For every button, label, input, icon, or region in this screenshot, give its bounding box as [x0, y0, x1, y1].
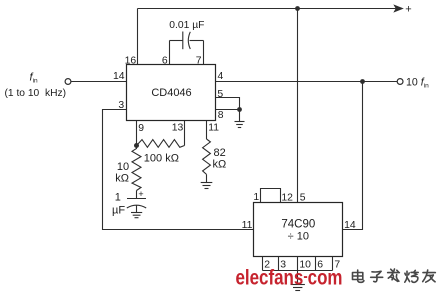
arrowhead on +V rail — [394, 5, 403, 12]
svg-text:13: 13 — [172, 123, 184, 134]
wire: +V supply rail — [138, 8, 396, 10]
svg-text:14: 14 — [344, 220, 356, 231]
watermark: Chinese characters dian zi fa shao you — [353, 269, 436, 282]
glyph shao — [405, 270, 418, 282]
svg-text:9: 9 — [138, 123, 144, 134]
svg-text:82: 82 — [214, 147, 226, 159]
node: junction +V rail / 74C90 Vcc — [295, 6, 300, 11]
svg-text:kΩ: kΩ — [213, 159, 227, 171]
glyph dian — [353, 270, 364, 282]
wire: 74C90 bottom pins 2,3,10,6,7 to ground bus — [263, 257, 333, 285]
wire: junction down and left to 74C90 pin 14 — [343, 82, 363, 230]
svg-text:16: 16 — [125, 56, 137, 67]
svg-text:0.01 µF: 0.01 µF — [169, 20, 204, 31]
glyph you — [423, 270, 436, 282]
svg-text:(1 to 10 kHz): (1 to 10 kHz) — [5, 88, 67, 99]
glyph fa — [388, 269, 400, 281]
svg-text:elecfans-com: elecfans-com — [236, 267, 343, 290]
svg-text:+: + — [405, 4, 411, 16]
node: junction pin5/pin8 to ground — [237, 107, 242, 112]
ground: below R3 — [201, 174, 213, 188]
svg-text:100 kΩ: 100 kΩ — [144, 153, 179, 165]
capacitor C2 1uF: curved bottom plate — [127, 205, 146, 208]
svg-text:kΩ: kΩ — [115, 172, 129, 184]
resistor R3 82 kOhm (vertical) — [203, 139, 211, 174]
wire: CD4046 pin 5 — [216, 98, 240, 110]
svg-text:8: 8 — [218, 110, 224, 121]
capacitor C1 0.01uF between pins 6 and 7 — [170, 32, 204, 65]
svg-text:CD4046: CD4046 — [151, 87, 191, 99]
resistor R2 10 kOhm (vertical) — [132, 146, 141, 191]
svg-text:÷ 10: ÷ 10 — [288, 231, 309, 243]
resistor R1 100 kOhm (horizontal) — [137, 140, 185, 148]
IC U1 CD4046 body — [127, 65, 216, 121]
svg-text:11: 11 — [242, 220, 253, 231]
wire: R1 right end up to CD4046 pin 13 — [184, 121, 186, 146]
wire: CD4046 pin 11 stub — [206, 121, 208, 140]
wire: pin 16 stub to +V rail — [137, 9, 139, 65]
svg-text:74C90: 74C90 — [281, 218, 315, 230]
wire: jumper 74C90 pin 1 to pin 12 — [261, 189, 281, 203]
svg-text:5: 5 — [217, 89, 223, 100]
svg-text:7: 7 — [196, 56, 202, 67]
svg-text:6: 6 — [162, 56, 168, 67]
svg-text:5: 5 — [300, 192, 306, 203]
wire: input terminal to CD4046 pin 14 — [71, 81, 127, 83]
wire: CD4046 pin 9 stub — [136, 121, 138, 146]
svg-text:4: 4 — [218, 71, 224, 82]
svg-text:10 fin: 10 fin — [406, 76, 429, 89]
node: junction pin9 / R1 / R2 — [134, 143, 139, 148]
input terminal circle — [65, 79, 71, 85]
svg-text:1: 1 — [115, 192, 121, 204]
svg-text:µF: µF — [112, 205, 125, 217]
wire: CD4046 pin 4 to 10fin output terminal — [216, 81, 398, 83]
glyph zi — [371, 271, 383, 282]
svg-text:fin: fin — [30, 71, 39, 84]
ground: below C2 — [131, 205, 142, 217]
node: junction VCO out / divider input — [360, 79, 365, 84]
wire: CD4046 pin 8 — [216, 109, 240, 111]
svg-text:+: + — [138, 189, 143, 199]
IC U2 74C90 body — [254, 203, 343, 257]
wire: +V rail down to 74C90 pin 5 — [297, 9, 299, 203]
wire: CD4046 pin 3 to 74C90 pin 11 — [103, 110, 254, 230]
svg-text:12: 12 — [281, 192, 293, 203]
ground: pin5/8 ground symbol — [235, 110, 245, 128]
svg-text:1: 1 — [253, 192, 259, 203]
ground: 74C90 ground symbol — [291, 285, 305, 291]
svg-text:14: 14 — [113, 71, 125, 82]
svg-text:3: 3 — [118, 100, 124, 111]
svg-text:10: 10 — [117, 161, 129, 173]
svg-text:11: 11 — [208, 123, 219, 134]
output terminal circle 10fin — [397, 79, 403, 85]
capacitor C2 1uF polarized: top plate — [127, 191, 146, 199]
